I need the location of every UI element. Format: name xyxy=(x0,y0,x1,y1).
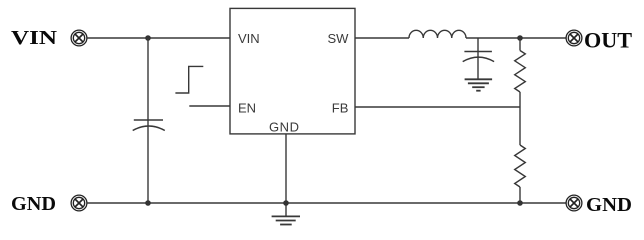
terminal VIN xyxy=(71,30,87,46)
ground C2 xyxy=(465,79,493,90)
svg-text:VIN: VIN xyxy=(11,27,58,49)
wire VIN rail xyxy=(87,37,230,39)
wire C1 bottom xyxy=(147,120,149,203)
node R2/GND junction xyxy=(517,200,523,206)
wire GND pin xyxy=(285,134,287,216)
svg-text:FB: FB xyxy=(332,101,349,116)
ground main xyxy=(272,216,300,224)
wire GND rail xyxy=(87,202,566,204)
wire R1 top xyxy=(519,38,521,51)
wire R2 bottom xyxy=(519,187,521,203)
node U1-GND junction xyxy=(283,200,289,206)
wire FB xyxy=(355,106,520,108)
node VIN/C1 junction xyxy=(145,35,151,41)
svg-text:GND: GND xyxy=(269,119,299,134)
svg-text:EN: EN xyxy=(238,101,256,116)
terminal OUT xyxy=(566,30,582,46)
inductor L1 xyxy=(409,30,466,38)
wire C1 top xyxy=(147,38,149,121)
resistor R2 xyxy=(515,145,526,187)
wire C2 top xyxy=(477,38,479,52)
wire R1-R2 / node FB xyxy=(519,92,521,145)
svg-text:VIN: VIN xyxy=(238,31,260,46)
capacitor C2 xyxy=(463,52,494,62)
node C1/GND junction xyxy=(145,200,151,206)
capacitor C1 xyxy=(133,120,165,131)
svg-text:OUT: OUT xyxy=(584,28,632,53)
wire C2 bottom xyxy=(477,52,479,80)
wire EN xyxy=(189,105,230,107)
wire output rail xyxy=(466,37,566,39)
wire SW to inductor xyxy=(355,37,409,39)
svg-text:GND: GND xyxy=(11,193,56,215)
svg-text:SW: SW xyxy=(327,31,349,46)
node OUT/R1 junction xyxy=(517,35,523,41)
terminal GND left xyxy=(71,195,87,211)
svg-text:GND: GND xyxy=(586,194,632,216)
terminal GND right xyxy=(566,195,582,211)
op-amp U1 regulator body xyxy=(230,8,355,133)
enable step signal xyxy=(175,66,203,93)
resistor R1 xyxy=(515,51,526,93)
